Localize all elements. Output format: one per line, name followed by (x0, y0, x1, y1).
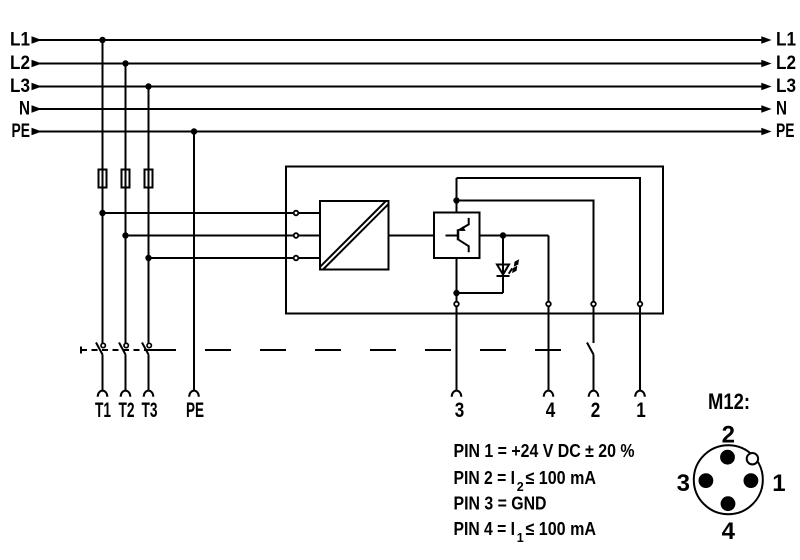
pin terminal circle 4 (546, 302, 551, 307)
pin terminal circle 1 (638, 302, 643, 307)
wire T1 lower (102, 355, 104, 391)
transistor Q1 bar (457, 229, 460, 240)
wire T3 lower (148, 355, 150, 391)
node branch L1 (99, 210, 105, 216)
wire U2 output to U3 (389, 235, 435, 237)
node PE tap junction (191, 128, 197, 134)
arrow L1 right (761, 36, 771, 43)
arrow N left (32, 105, 42, 112)
fuse F3 (145, 170, 153, 188)
arrow PE left (32, 128, 42, 135)
M12 connector circle (694, 445, 763, 514)
transistor U3 box (434, 213, 480, 259)
pin input circle 3 (294, 256, 299, 261)
wire L3 bus line (36, 86, 763, 88)
terminal T1 arc (98, 391, 108, 397)
terminal PE arc (189, 391, 199, 397)
M12 pin 4 dot (721, 496, 736, 511)
wire L3 tap vertical (148, 87, 150, 344)
transistor Q1 emitter arrow (460, 226, 466, 231)
power supply U2 box (320, 201, 389, 270)
transistor Q1 base lead (446, 235, 459, 237)
M12 pin 1 dot (744, 473, 759, 488)
pin terminal circle 2 (591, 302, 596, 307)
switch S2 blade (119, 343, 126, 355)
svg-text:T3: T3 (142, 399, 158, 422)
svg-text:T1: T1 (95, 399, 111, 422)
arrow PE right (761, 128, 771, 135)
M12 pin 2 dot (720, 450, 735, 465)
terminal T3 arc (144, 391, 154, 397)
LED D1 light arrowhead upper (514, 259, 519, 267)
linkage dashed long (150, 349, 588, 351)
wire L2 tap vertical (125, 64, 127, 344)
wire L2 bus line (36, 63, 763, 65)
wire branch L2 to input 2 (126, 235, 294, 237)
fuse F1 (99, 170, 107, 188)
wire LED return (457, 292, 504, 294)
terminal 1 arc (635, 391, 645, 397)
LED D1 light arrow shaft (509, 268, 513, 273)
terminal 4 arc (544, 391, 554, 397)
wire net to terminal 2 (457, 201, 594, 302)
svg-text:2: 2 (591, 399, 601, 422)
terminal 2 arc (589, 391, 599, 397)
svg-text:PE: PE (186, 399, 204, 422)
pin terminal circle 3 (454, 302, 459, 307)
svg-text:1: 1 (636, 399, 646, 422)
switch S1 blade (96, 343, 103, 355)
svg-text:1: 1 (772, 470, 785, 497)
wire branch L3 to input 3 (149, 257, 294, 259)
wire U3 top vertical (456, 178, 458, 213)
svg-text:4: 4 (722, 518, 736, 545)
wire L1 tap vertical (102, 40, 104, 343)
wire terminal 4 down (548, 307, 550, 391)
pin input circle 1 (294, 211, 299, 216)
svg-text:L1: L1 (10, 30, 30, 51)
wire PE bus line (36, 131, 763, 133)
node branch L2 (122, 232, 128, 238)
svg-text:M12:: M12: (708, 389, 750, 414)
wire L1 bus line (36, 39, 763, 41)
svg-text:3: 3 (455, 399, 465, 422)
wire N bus line (36, 108, 763, 110)
svg-text:L1: L1 (776, 30, 796, 51)
svg-text:L3: L3 (10, 76, 30, 97)
node branch L3 (145, 255, 151, 261)
switch S3 blade (142, 343, 149, 355)
wire terminal 3 down (456, 307, 458, 391)
arrow L1 left (32, 36, 42, 43)
wire LED anode (502, 236, 504, 277)
svg-text:PIN 1 = +24 V DC ± 20 %: PIN 1 = +24 V DC ± 20 % (454, 440, 635, 461)
transistor Q1 emitter lead (459, 218, 469, 230)
fuse F2 (122, 170, 130, 188)
node top junction (453, 197, 459, 203)
svg-text:≤ 100 mA: ≤ 100 mA (526, 467, 597, 488)
svg-text:PIN 4 = I: PIN 4 = I (454, 518, 516, 539)
node L2 tap junction (122, 60, 128, 66)
device box U1 outline (286, 167, 663, 314)
node LED return junction (453, 290, 459, 296)
linkage dashed short (81, 349, 150, 351)
power supply U2 diagonal 2 (323, 204, 390, 271)
M12 pin 3 dot (699, 473, 714, 488)
svg-text:L2: L2 (776, 53, 796, 74)
wire terminal 2 down upper (593, 307, 595, 343)
wire net to terminal 1 (457, 178, 641, 301)
arrow L3 left (32, 83, 42, 90)
arrow L3 right (761, 83, 771, 90)
node L3 tap junction (145, 83, 151, 89)
svg-text:PE: PE (12, 121, 31, 142)
LED D1 light arrowhead lower (512, 266, 517, 273)
switch S1 contact circle (101, 343, 105, 347)
svg-text:PE: PE (776, 121, 795, 142)
node LED branch junction (500, 232, 506, 238)
arrow L2 left (32, 60, 42, 67)
node L1 tap junction (99, 37, 105, 43)
svg-text:1: 1 (517, 531, 524, 545)
wire terminal 1 down (639, 307, 641, 391)
svg-text:≤ 100 mA: ≤ 100 mA (526, 518, 597, 539)
pin input circle 2 (294, 233, 299, 238)
svg-text:L3: L3 (776, 76, 796, 97)
svg-text:2: 2 (722, 422, 735, 449)
wire PE tap vertical (193, 132, 195, 391)
svg-text:PIN 2 = I: PIN 2 = I (454, 467, 516, 488)
transistor Q1 collector lead (459, 240, 469, 253)
svg-text:T2: T2 (119, 399, 135, 422)
svg-text:L2: L2 (10, 53, 30, 74)
M12 notch (747, 453, 758, 464)
wire branch L1 to input 1 (103, 212, 294, 214)
wire U3 bottom to terminal 3 (456, 258, 458, 301)
svg-text:3: 3 (677, 470, 690, 497)
switch S4 blade (587, 343, 594, 355)
arrow L2 right (761, 60, 771, 67)
wire input 3 stub (299, 257, 320, 259)
svg-text:N: N (19, 99, 30, 120)
LED D1 triangle (497, 265, 509, 275)
svg-text:N: N (776, 99, 787, 120)
wire input 1 stub (299, 212, 320, 214)
wire to terminal 4 (548, 236, 550, 302)
wire input 2 stub (299, 235, 320, 237)
switch S3 contact circle (147, 343, 151, 347)
wire U3 output net (480, 235, 549, 237)
wire T2 lower (125, 355, 127, 391)
terminal 3 arc (452, 391, 462, 397)
linkage end tick (80, 347, 82, 354)
svg-text:PIN 3 = GND: PIN 3 = GND (454, 493, 547, 514)
switch S2 contact circle (124, 343, 128, 347)
wire terminal 2 down lower (593, 355, 595, 391)
LED D1 cathode bar (497, 275, 510, 277)
svg-text:4: 4 (546, 399, 556, 422)
arrow N right (761, 105, 771, 112)
wire LED cathode down (502, 276, 504, 293)
terminal T2 arc (121, 391, 131, 397)
power supply U2 diagonal 1 (320, 201, 387, 268)
